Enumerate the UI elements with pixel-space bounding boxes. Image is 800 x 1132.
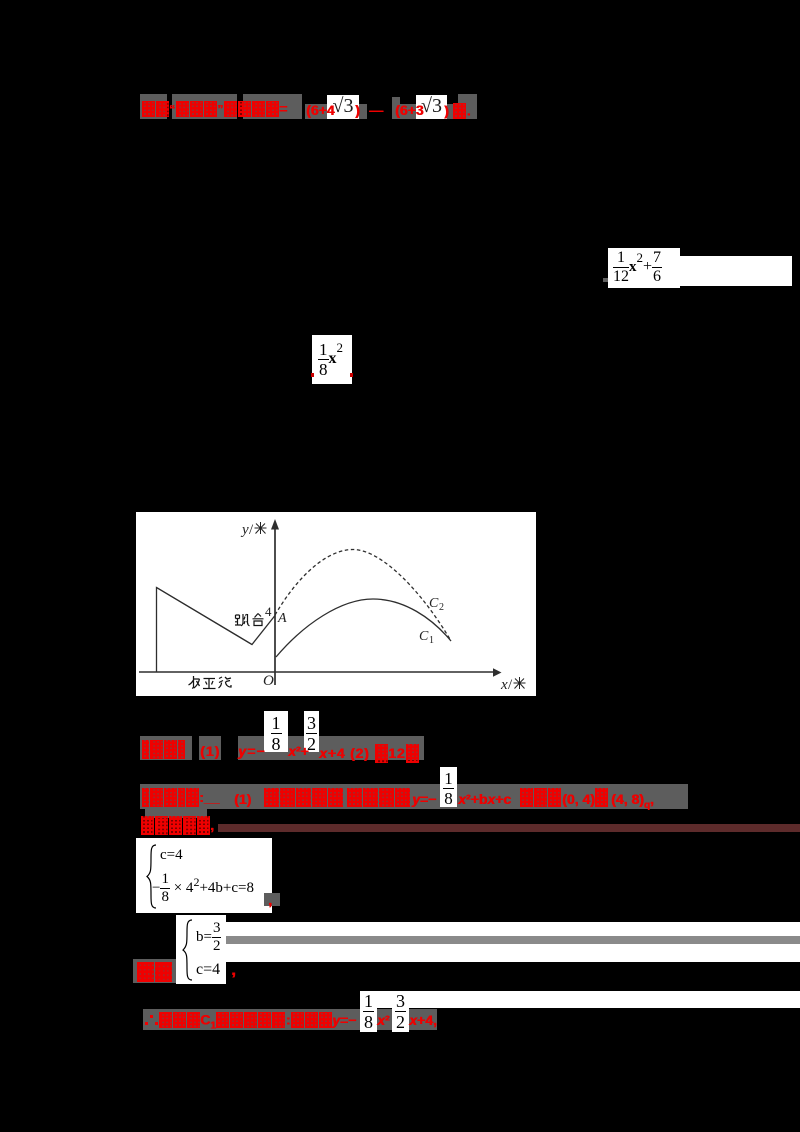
arrowheads <box>493 668 502 676</box>
line 2: answer formula <box>140 736 192 760</box>
platform outline <box>157 588 276 673</box>
shui ping xian <box>189 676 232 689</box>
mi after x/ <box>514 677 526 689</box>
x axis <box>139 671 494 673</box>
svg-text:O: O <box>263 673 274 689</box>
svg-text:4: 4 <box>265 604 272 619</box>
svg-text:A: A <box>277 611 287 626</box>
svg-text:C: C <box>419 629 429 644</box>
equation system 2 <box>176 915 226 984</box>
jie de <box>133 959 176 983</box>
labels <box>240 522 513 693</box>
tiao tai <box>235 614 264 626</box>
mi (rice) after y/ <box>255 522 267 534</box>
svg-text:C: C <box>429 596 439 611</box>
line 3: analysis <box>140 784 688 809</box>
fake hanzi labels <box>189 522 526 689</box>
platform top edge redraw <box>157 588 253 645</box>
white band with gray strip <box>222 922 800 962</box>
svg-text:2: 2 <box>439 602 444 613</box>
C1 solid curve <box>276 599 451 657</box>
svg-text:/: / <box>508 677 513 693</box>
equation image fragment: 1/8 x^2 <box>312 335 352 384</box>
equation system 1 <box>136 838 272 913</box>
C2 dashed curve <box>275 550 451 642</box>
svg-text:/: / <box>249 522 254 538</box>
line 1: answer sentence with sqrt boxes <box>140 94 167 119</box>
svg-text:x: x <box>500 677 508 693</box>
svg-text:1: 1 <box>429 635 434 646</box>
last line <box>143 1009 437 1030</box>
y axis <box>274 524 276 685</box>
svg-text:y: y <box>240 522 249 538</box>
line 4: substitute <box>140 816 214 835</box>
diagram <box>136 512 536 696</box>
equation image fragment: 1/12 x^2 + 7/6 <box>608 248 680 288</box>
